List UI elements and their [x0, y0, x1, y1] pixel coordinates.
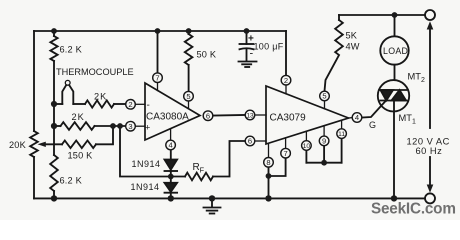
svg-text:5: 5 — [322, 92, 326, 101]
resistor RF — [185, 173, 213, 181]
terminal top — [425, 10, 435, 20]
load LOAD — [380, 36, 408, 64]
thermocouple TC1 — [54, 103, 62, 105]
svg-text:MT: MT — [399, 113, 413, 123]
svg-text:1N914: 1N914 — [131, 182, 160, 192]
svg-text:6: 6 — [248, 137, 252, 146]
svg-text:60 Hz: 60 Hz — [416, 146, 443, 156]
svg-text:-: - — [147, 100, 150, 111]
diode D2 1N914 — [165, 183, 178, 192]
svg-text:-: - — [250, 48, 254, 60]
arrow AC down — [427, 185, 434, 193]
capacitor C1 100uF — [246, 31, 248, 44]
pin circles U2 — [281, 75, 291, 85]
stubs U1 pins — [157, 83, 159, 91]
svg-text:7: 7 — [283, 149, 287, 158]
svg-text:LOAD: LOAD — [383, 46, 408, 56]
svg-text:20K: 20K — [9, 140, 27, 150]
svg-text:8: 8 — [266, 158, 270, 167]
resistor R 2K upper — [73, 103, 85, 105]
ground main — [211, 198, 213, 207]
svg-text:4W: 4W — [346, 42, 360, 52]
svg-text:2K: 2K — [72, 112, 85, 122]
wire pin 6 U1 to pin 13 U2 — [213, 114, 245, 117]
svg-text:F: F — [200, 166, 205, 175]
svg-text:50 K: 50 K — [197, 50, 217, 60]
svg-text:+: + — [145, 122, 150, 132]
terminal bottom — [425, 193, 435, 203]
svg-text:7: 7 — [155, 73, 159, 82]
wire top rail to pin 2 of U2 — [285, 31, 287, 75]
wire pin 7 U1 to rail — [157, 31, 159, 73]
wire top rail right — [339, 14, 425, 16]
wire pins 10 9 11 tie — [305, 151, 307, 163]
ground for C1 — [239, 61, 257, 63]
wire node A to node B — [53, 104, 55, 126]
svg-text:120 V AC: 120 V AC — [407, 136, 450, 146]
svg-text:13: 13 — [246, 112, 254, 119]
svg-text:THERMOCOUPLE: THERMOCOUPLE — [56, 67, 134, 77]
svg-text:4: 4 — [355, 113, 359, 122]
AC line lower — [429, 157, 431, 185]
svg-text:6.2 K: 6.2 K — [60, 45, 83, 55]
wire triac MT1 to bottom rail — [393, 101, 395, 199]
pin circles U1 — [126, 73, 362, 167]
resistor R 5K 4W — [338, 15, 340, 20]
AC line upper — [429, 29, 431, 128]
arrow AC up — [427, 21, 434, 29]
resistor R 150K — [62, 141, 96, 149]
arrow wiper — [38, 142, 46, 147]
svg-text:1N914: 1N914 — [132, 159, 161, 169]
resistor R 6.2K lower — [53, 126, 55, 155]
wiper arrow of 20K pot — [44, 143, 62, 145]
wire bottom rail — [34, 197, 425, 199]
svg-text:2K: 2K — [94, 91, 107, 101]
stubs U2 pins — [285, 85, 287, 94]
svg-text:6.2 K: 6.2 K — [60, 176, 83, 186]
svg-text:11: 11 — [338, 131, 345, 138]
svg-text:2: 2 — [128, 100, 132, 109]
svg-text:1: 1 — [412, 119, 416, 126]
wire diode node to RF — [171, 176, 185, 178]
wire 2K to pin 2 — [114, 103, 126, 105]
wire pin 8 U2 to rail — [268, 167, 270, 198]
svg-text:SeekIC.com: SeekIC.com — [371, 201, 456, 218]
wire left rail lower — [33, 157, 35, 198]
zero-voltage switch U2 CA3079 — [266, 86, 349, 144]
svg-text:3: 3 — [128, 122, 132, 131]
wire 6.2K to node A — [53, 61, 55, 104]
svg-text:4: 4 — [168, 141, 172, 150]
svg-text:2: 2 — [421, 77, 425, 84]
svg-text:150 K: 150 K — [68, 151, 94, 161]
wire LOAD to triac — [394, 65, 396, 90]
wire RF to pin 6 of U2 — [213, 141, 245, 177]
svg-text:9: 9 — [322, 137, 326, 146]
resistor R 6.2K upper — [53, 31, 55, 36]
wire node B down to diode node — [120, 126, 171, 177]
svg-text:100 μF: 100 μF — [254, 42, 284, 52]
triac Q1 — [378, 80, 409, 111]
wire top rail left — [34, 30, 286, 32]
svg-text:CA3079: CA3079 — [270, 113, 307, 124]
wire left rail upper — [33, 31, 35, 131]
svg-text:CA3080A: CA3080A — [146, 111, 189, 122]
svg-text:6: 6 — [206, 111, 210, 120]
svg-text:10: 10 — [303, 143, 311, 150]
resistor R 2K lower — [54, 125, 61, 127]
resistor R 50K — [188, 31, 190, 34]
potentiometer R 20K — [30, 131, 38, 157]
op-amp U1 CA3080A — [145, 83, 200, 140]
svg-text:5K: 5K — [346, 31, 358, 41]
svg-text:MT: MT — [408, 72, 422, 82]
wire pin 7 U2 join — [269, 158, 286, 176]
svg-text:+: + — [248, 34, 254, 45]
svg-text:5: 5 — [186, 92, 190, 101]
pin numbers — [128, 73, 359, 167]
svg-text:G: G — [369, 120, 376, 130]
wire rail to LOAD — [394, 15, 396, 36]
wire 2K to pin 3 — [95, 125, 126, 127]
wire pin 5 U2 to 5K — [325, 56, 339, 91]
wire 150K up to node B — [96, 126, 113, 144]
diode D1 1N914 — [165, 160, 178, 170]
svg-text:2: 2 — [284, 76, 288, 85]
wire D1 to D2 — [170, 171, 172, 183]
wire pin 4 U1 to diode D1 — [170, 150, 172, 160]
wire gate G from pin 4 U2 — [362, 101, 386, 118]
